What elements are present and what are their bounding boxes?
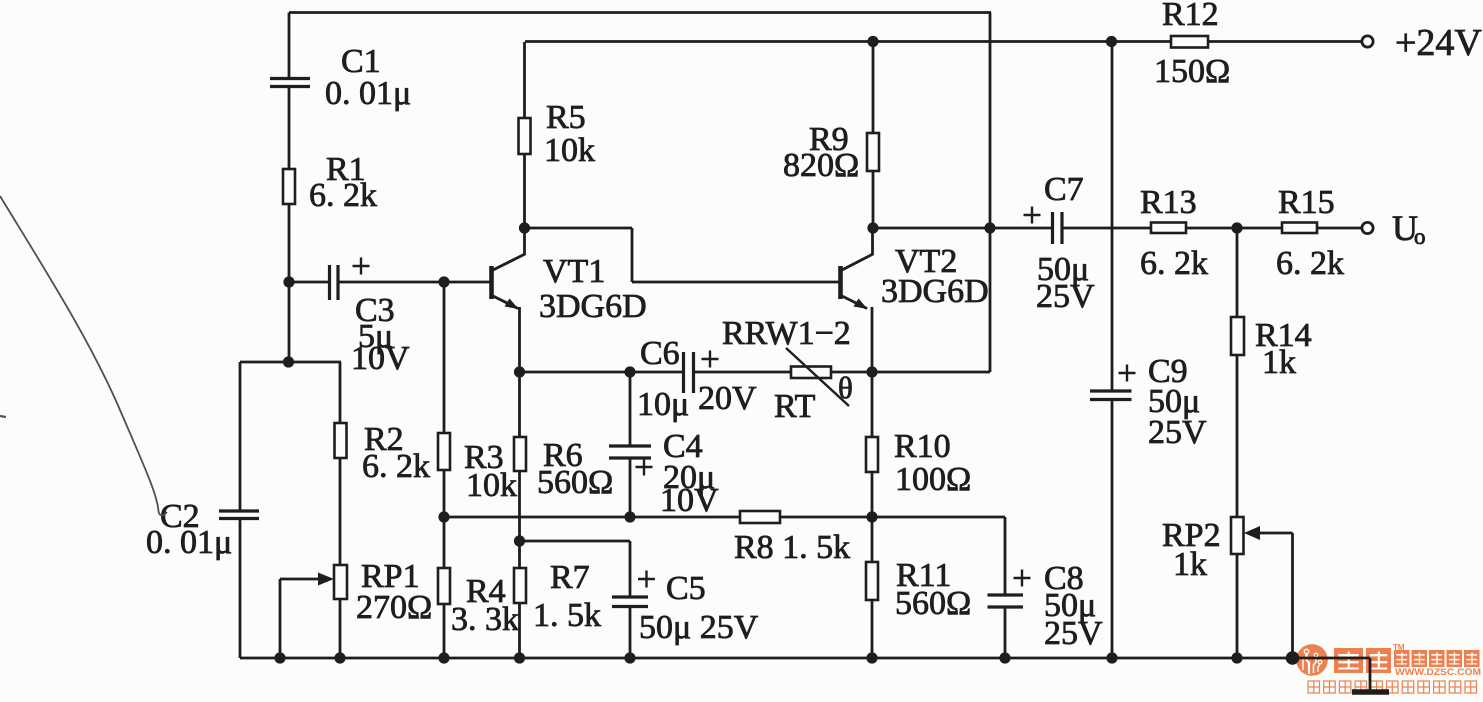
svg-text:VT1: VT1 bbox=[543, 253, 605, 290]
svg-text:270Ω: 270Ω bbox=[356, 589, 432, 626]
svg-text:C5: C5 bbox=[666, 570, 706, 607]
svg-text:0. 01μ: 0. 01μ bbox=[325, 75, 411, 112]
svg-text:R8 1. 5k: R8 1. 5k bbox=[734, 529, 850, 566]
svg-text:6. 2k: 6. 2k bbox=[1140, 245, 1208, 282]
svg-text:R15: R15 bbox=[1278, 184, 1335, 221]
svg-text:3DG6D: 3DG6D bbox=[881, 273, 989, 310]
svg-text:100Ω: 100Ω bbox=[895, 461, 971, 498]
svg-text:25V: 25V bbox=[1044, 615, 1103, 652]
svg-text:560Ω: 560Ω bbox=[537, 464, 613, 501]
svg-text:560Ω: 560Ω bbox=[895, 585, 971, 622]
svg-text:R13: R13 bbox=[1140, 184, 1197, 221]
svg-text:820Ω: 820Ω bbox=[783, 147, 859, 184]
svg-text:25V: 25V bbox=[1148, 414, 1207, 451]
svg-text:+24V: +24V bbox=[1395, 22, 1482, 64]
svg-text:10k: 10k bbox=[466, 467, 517, 504]
svg-text:RRW1−2: RRW1−2 bbox=[722, 315, 851, 352]
svg-text:C7: C7 bbox=[1044, 171, 1084, 208]
svg-text:6. 2k: 6. 2k bbox=[1276, 245, 1344, 282]
svg-text:6. 2k: 6. 2k bbox=[362, 448, 430, 485]
svg-text:10V: 10V bbox=[660, 482, 719, 519]
svg-text:3. 3k: 3. 3k bbox=[451, 601, 519, 638]
svg-text:1k: 1k bbox=[1173, 546, 1207, 583]
svg-text:3DG6D: 3DG6D bbox=[539, 288, 647, 325]
svg-text:WWW.DZSC.COM: WWW.DZSC.COM bbox=[1395, 667, 1481, 678]
svg-text:θ: θ bbox=[838, 370, 853, 405]
svg-text:R7: R7 bbox=[550, 559, 590, 596]
svg-text:R5: R5 bbox=[546, 99, 586, 136]
svg-text:R10: R10 bbox=[894, 428, 951, 465]
svg-text:150Ω: 150Ω bbox=[1154, 53, 1230, 90]
svg-text:10μ: 10μ bbox=[637, 386, 689, 423]
svg-text:20V: 20V bbox=[698, 380, 757, 417]
svg-text:R12: R12 bbox=[1162, 0, 1219, 33]
svg-text:25V: 25V bbox=[1036, 278, 1095, 315]
svg-text:6. 2k: 6. 2k bbox=[309, 177, 377, 214]
svg-text:50μ 25V: 50μ 25V bbox=[639, 609, 759, 646]
svg-text:1k: 1k bbox=[1262, 344, 1296, 381]
svg-text:RT: RT bbox=[774, 388, 816, 425]
svg-text:1. 5k: 1. 5k bbox=[533, 597, 601, 634]
svg-text:o: o bbox=[1414, 224, 1426, 249]
svg-text:10k: 10k bbox=[544, 132, 595, 169]
svg-text:C6: C6 bbox=[640, 335, 680, 372]
svg-text:10V: 10V bbox=[351, 340, 410, 377]
svg-text:0. 01μ: 0. 01μ bbox=[146, 524, 232, 561]
